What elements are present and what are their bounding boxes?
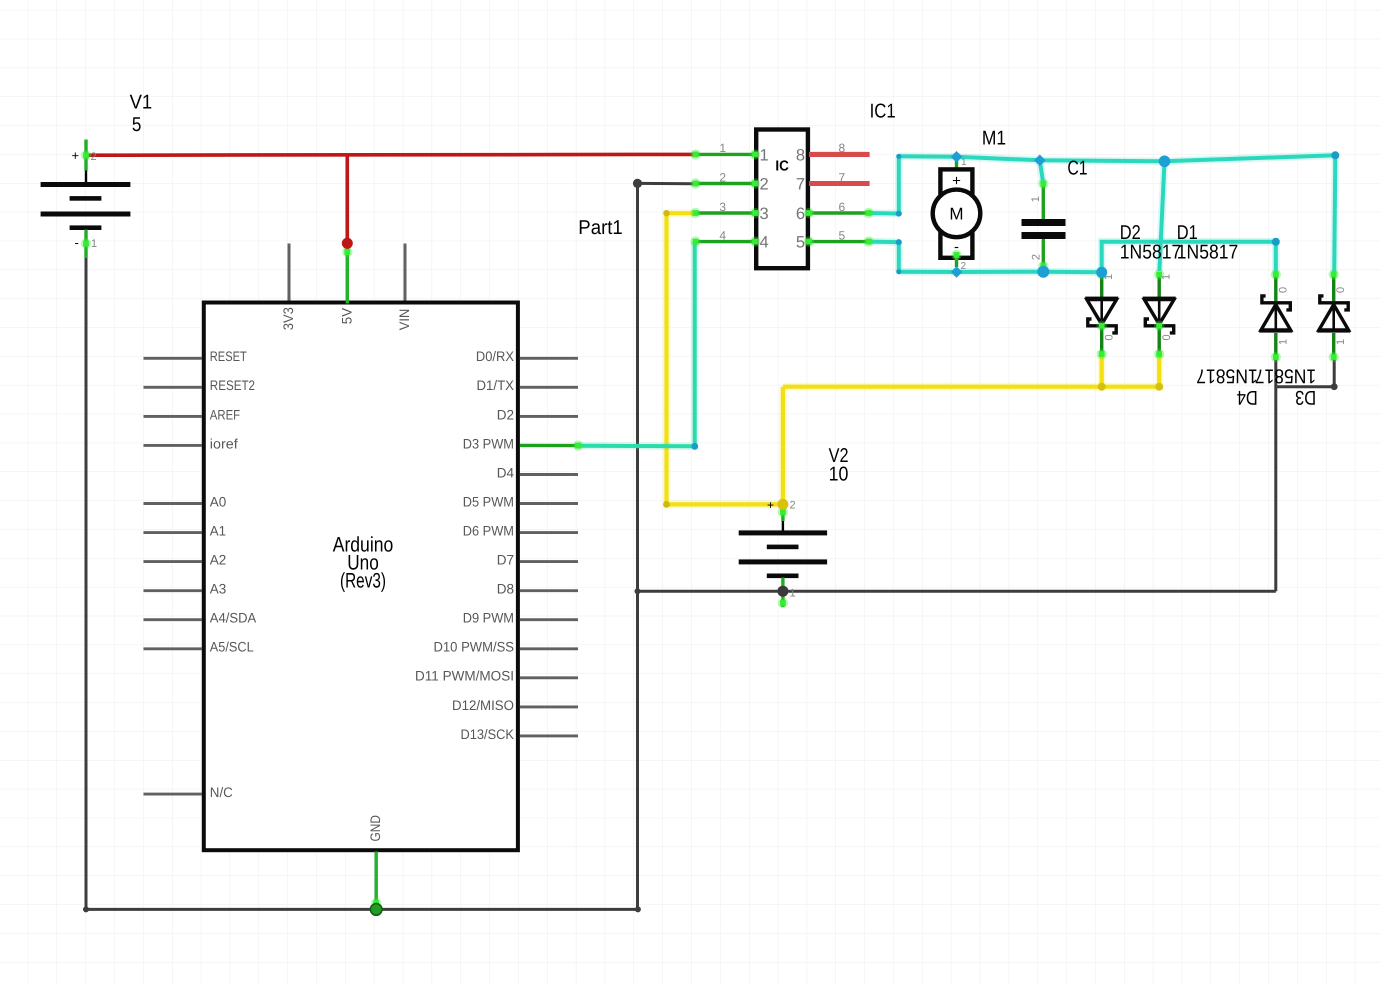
pin A2 [144,560,203,563]
svg-text:+: + [952,173,961,190]
svg-text:1: 1 [1277,339,1289,345]
pin VIN [404,244,407,301]
IC pin 7 [809,181,870,186]
pin A1 [144,531,203,534]
svg-text:A1: A1 [210,524,226,539]
svg-text:3V3: 3V3 [281,307,296,330]
wire dark V1- down [85,251,88,909]
svg-text:C1: C1 [1067,158,1087,180]
svg-text:0: 0 [1104,334,1116,340]
pin D2 [520,415,578,418]
wire dark D4 down [1274,356,1277,591]
C1 plates [1022,219,1066,226]
D4 pin anode [1274,333,1277,357]
svg-text:AREF: AREF [210,407,240,422]
D1 pin cathode [1157,326,1160,354]
svg-text:3: 3 [760,205,769,223]
svg-text:6: 6 [839,200,846,214]
IC U1 (IC1, DIP-8 half-bridge driver) [690,101,895,269]
node diamond C1 top junction [1034,155,1046,167]
IC pin 4 [696,240,756,243]
svg-text:+: + [767,498,774,512]
wire dark D3 bottom link [1276,356,1334,387]
svg-text:1N5817: 1N5817 [1177,242,1238,264]
node rail right end [635,906,641,912]
V1 plates [41,182,131,187]
wire turquoise down to bottom rail [895,242,903,272]
svg-text:GND: GND [368,815,383,842]
node junction y591 bus [635,588,641,594]
capacitor C1 [1022,158,1088,272]
D2 pin cathode [1100,326,1103,354]
M1 pin 1 [955,161,958,172]
D3 symbol [1320,296,1348,310]
pin D11 PWM/MOSI [520,676,578,679]
node yellow corner bottom [663,501,670,508]
svg-text:4: 4 [719,228,726,242]
node dark junction V2- [777,586,788,597]
svg-text:1: 1 [760,147,769,165]
wire turquoise bottom rail [899,268,1102,276]
svg-text:1: 1 [1335,339,1347,345]
diode D2 1N5817 [1085,269,1118,359]
node dark junction IC pin2 [633,179,642,188]
svg-text:A4/SDA: A4/SDA [210,611,257,626]
pin D1/TX [520,386,578,389]
svg-text:ioref: ioref [210,436,238,451]
C1 pin 1 [1042,184,1045,219]
svg-text:2: 2 [719,170,726,184]
node D3 bottom corner [1331,383,1338,390]
pin 5V [346,243,349,303]
wire turquoise C1 pin1 link [1040,160,1044,184]
node rail left end [83,906,89,912]
battery V1 [41,91,153,258]
V2 pin 1 (-) [782,577,784,594]
svg-text:D4: D4 [497,465,515,480]
svg-text:RESET: RESET [210,349,247,364]
node yellow junction V2+ [777,499,788,510]
svg-text:D3 PWM: D3 PWM [463,436,514,451]
svg-text:2: 2 [961,261,967,272]
pin D6 PWM [520,531,578,534]
pin N/C [144,793,203,796]
svg-text:10: 10 [829,463,849,485]
svg-text:D2: D2 [497,407,514,422]
wire turquoise down to D3 [1334,155,1335,274]
svg-text:V1: V1 [130,91,153,113]
svg-text:1: 1 [961,157,967,168]
pin D4 [520,473,578,476]
pin D0/RX [520,357,578,360]
svg-text:D12/MISO: D12/MISO [452,698,514,713]
svg-text:0: 0 [1335,287,1347,293]
svg-text:0: 0 [1277,287,1289,293]
svg-text:D5 PWM: D5 PWM [463,494,514,509]
svg-text:Part1: Part1 [578,217,623,239]
wire yellow IC pin3 to V2+ [667,213,782,504]
C1 pin 2 [1042,239,1045,266]
pin A0 [144,502,203,505]
svg-text:8: 8 [796,147,805,165]
node cyan bottom corner [896,269,901,274]
svg-text:1: 1 [91,238,97,250]
pin D8 [520,589,578,592]
wire turquoise down to D1 [1159,161,1164,271]
svg-text:IC: IC [775,158,789,174]
svg-text:D13/SCK: D13/SCK [461,727,515,742]
IC pin 2 [696,182,756,185]
V1 pin 2 (+) [85,166,87,184]
pin D12/MISO [520,705,578,708]
pin AREF [144,415,203,418]
node yellow corner top [663,210,669,216]
pin RESET [144,357,203,360]
node top rail D3 corner [1331,151,1339,159]
node diamond M1 pin1 [951,151,963,163]
svg-text:IC1: IC1 [870,101,896,123]
IC pin 3 [696,211,756,214]
IC pin 5 [809,240,869,243]
svg-text:D3: D3 [1295,386,1316,408]
wire red branch to 5V [345,155,349,243]
D4 pin cathode [1274,275,1277,303]
diode D3 1N5817 (rotated 180) [1317,269,1350,362]
wire turquoise D2 to D4 [1102,242,1276,275]
M1 pin 2 [955,255,958,267]
svg-text:7: 7 [839,170,846,184]
V1 pin 1 (-) [85,229,87,249]
IC pin 1 [696,153,756,156]
svg-text:8: 8 [839,141,846,155]
IC pin 6 [809,211,869,214]
svg-text:1: 1 [719,141,726,155]
svg-text:5: 5 [132,114,142,136]
wire red V1+ to IC pin1 [86,153,694,157]
svg-text:D1: D1 [1177,222,1198,244]
svg-text:D1/TX: D1/TX [477,378,515,393]
svg-text:2: 2 [1030,254,1042,260]
D4 symbol [1262,296,1290,310]
svg-text:5: 5 [839,228,846,242]
IC pin 8 [809,152,870,157]
svg-text:D6 PWM: D6 PWM [463,524,514,539]
pin D3 PWM [520,444,578,448]
V2 plates [739,530,827,535]
svg-text:D9 PWM: D9 PWM [463,611,514,626]
node diamond M1 pin2 [951,266,963,278]
svg-text:5: 5 [796,234,805,252]
M1 body [940,169,972,257]
pin D13/SCK [520,734,578,737]
pin D5 PWM [520,502,578,505]
svg-text:A3: A3 [210,582,227,597]
pin 3V3 [288,244,291,301]
diode D1 1N5817 [1143,269,1176,359]
node yellow end D1 [1155,383,1163,391]
diode D4 1N5817 (rotated 180) [1259,269,1292,362]
wire turquoise IC pin5 link [869,238,899,246]
node corner D3 wire [691,443,698,450]
D2 pin anode [1100,275,1103,300]
svg-text:+: + [72,148,80,163]
D1 symbol [1143,297,1176,300]
node junction D2 top [1096,267,1107,278]
node cyan pin6 [896,211,902,217]
V2 pin 2 (+) [782,504,784,532]
node red junction 5V [342,238,353,249]
pin A4/SDA [144,618,203,621]
node corner D4 link [1272,238,1280,246]
svg-text:D10 PWM/SS: D10 PWM/SS [434,640,515,655]
svg-text:4: 4 [760,234,769,252]
node cyan top corner [896,154,901,159]
svg-text:2: 2 [790,500,796,512]
pin D7 [520,560,578,563]
svg-text:2: 2 [760,176,769,194]
node yellow junction D2 [1098,383,1106,391]
svg-text:5V: 5V [339,307,354,324]
svg-text:1N5817: 1N5817 [1255,365,1316,387]
wire dark IC pin2 to bus [638,182,694,185]
wire yellow V2+ up [779,387,787,505]
wire yellow rail y=386 [783,383,1159,391]
svg-text:D7: D7 [497,553,514,568]
pin RESET2 [144,386,203,389]
wire yellow D2 bottom [1098,354,1106,387]
D2 symbol [1085,297,1118,300]
svg-text:7: 7 [796,176,805,194]
D3 pin anode [1332,333,1335,357]
wire turquoise up to top rail [895,156,903,213]
svg-text:N/C: N/C [210,785,233,800]
svg-text:1N5817: 1N5817 [1120,242,1181,264]
svg-text:1: 1 [790,588,796,600]
svg-text:2: 2 [91,151,97,163]
svg-text:RESET2: RESET2 [210,378,255,393]
svg-text:0: 0 [1161,334,1173,340]
svg-text:A2: A2 [210,553,227,568]
svg-text:M: M [949,205,963,224]
wire dark horizontal y=591 [638,590,1276,593]
D3 pin cathode [1332,275,1335,303]
svg-text:A5/SCL: A5/SCL [210,640,254,655]
node junction top rail D1 [1159,156,1171,168]
svg-text:1N5817: 1N5817 [1196,365,1257,387]
svg-text:VIN: VIN [397,309,412,331]
battery V2 [739,445,849,608]
wire turquoise IC pin6 link [869,209,899,217]
motor M1 [933,128,1006,272]
svg-text:D0/RX: D0/RX [476,349,514,364]
svg-text:D2: D2 [1120,222,1141,244]
pin A5/SCL [144,647,203,650]
D1 pin anode [1157,275,1160,300]
svg-text:D11 PWM/MOSI: D11 PWM/MOSI [415,669,514,684]
pin GND [375,852,378,910]
wire dark ground rail bottom [86,908,638,911]
node junction C1 bottom [1037,266,1049,278]
pin D9 PWM [520,618,578,621]
Arduino Uno Part1 [204,217,623,910]
wire dark vertical bus x=637 [636,182,639,910]
pin A3 [144,589,203,592]
svg-text:(Rev3): (Rev3) [340,569,386,592]
svg-text:D4: D4 [1237,386,1258,408]
svg-text:A0: A0 [210,494,227,509]
pin ioref [144,444,203,447]
svg-text:6: 6 [796,205,805,223]
node cyan pin5 [896,239,902,245]
svg-text:D8: D8 [497,582,515,597]
wire turquoise top rail [899,155,1336,161]
svg-text:-: - [75,235,79,250]
pin D10 PWM/SS [520,647,578,650]
wire spring-green D3 PWM to IC pin4 [578,242,695,447]
svg-text:1: 1 [1161,274,1173,280]
svg-text:M1: M1 [982,128,1006,150]
node GND junction [370,904,382,916]
svg-text:1: 1 [1030,196,1042,202]
svg-text:3: 3 [719,200,726,214]
wire yellow D1 bottom [1155,354,1163,387]
